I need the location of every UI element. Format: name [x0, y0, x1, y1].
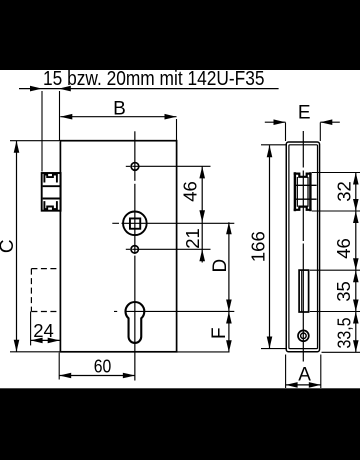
- svg-text:D: D: [210, 259, 231, 273]
- dashed hidden box: [31, 269, 59, 312]
- note text 15 bzw. 20mm mit 142U-F35: [43, 68, 265, 90]
- follower nut with square hole: [112, 212, 234, 236]
- dimension E: [265, 103, 340, 141]
- bolt opening front view: [294, 172, 317, 211]
- euro profile cylinder hole: [114, 302, 234, 343]
- vertical centerline faceplate: [302, 131, 304, 362]
- svg-text:60: 60: [94, 356, 112, 377]
- dimension 166: [247, 145, 285, 349]
- faceplate outer outline: [286, 142, 319, 352]
- dimension A: [286, 355, 321, 389]
- latch opening front view: [299, 270, 309, 312]
- dimension chain 46 and 21: [180, 166, 206, 262]
- dimension 60: [59, 353, 135, 380]
- svg-text:F: F: [209, 327, 230, 339]
- svg-text:B: B: [113, 99, 126, 120]
- dimension line 15: [19, 86, 279, 92]
- svg-text:E: E: [298, 103, 311, 124]
- hole circle top: [126, 163, 211, 171]
- svg-text:46: 46: [333, 238, 354, 259]
- svg-text:24: 24: [33, 320, 54, 341]
- vertical centerline left view: [134, 131, 136, 380]
- extension line bolt front face: [41, 91, 43, 172]
- bottom extension line right of case: [177, 351, 230, 353]
- svg-text:35: 35: [333, 281, 354, 302]
- faceplate inner outline: [289, 145, 318, 349]
- dimension chain D and F: [209, 222, 232, 352]
- dimension 24: [31, 312, 60, 346]
- svg-text:166: 166: [247, 231, 268, 262]
- bottom black bar: [0, 388, 360, 460]
- screw hole: [298, 330, 309, 341]
- svg-text:A: A: [298, 365, 311, 386]
- svg-text:32: 32: [334, 181, 355, 202]
- top black bar: [0, 0, 360, 70]
- svg-text:C: C: [0, 239, 18, 253]
- svg-text:46: 46: [180, 181, 201, 202]
- svg-text:21: 21: [182, 228, 203, 249]
- dimension B: [60, 99, 176, 141]
- bolt (riegel) side view: [42, 173, 61, 211]
- svg-text:33,5: 33,5: [334, 318, 355, 349]
- svg-text:15 bzw. 20mm mit 142U-F35: 15 bzw. 20mm mit 142U-F35: [43, 68, 265, 90]
- extension line case front face: [59, 91, 61, 141]
- hole circle below follower: [126, 246, 211, 253]
- dimension C: [0, 141, 60, 352]
- lock case rectangle: [60, 141, 176, 352]
- right dimension chain 32 46 35 33,5: [310, 173, 360, 353]
